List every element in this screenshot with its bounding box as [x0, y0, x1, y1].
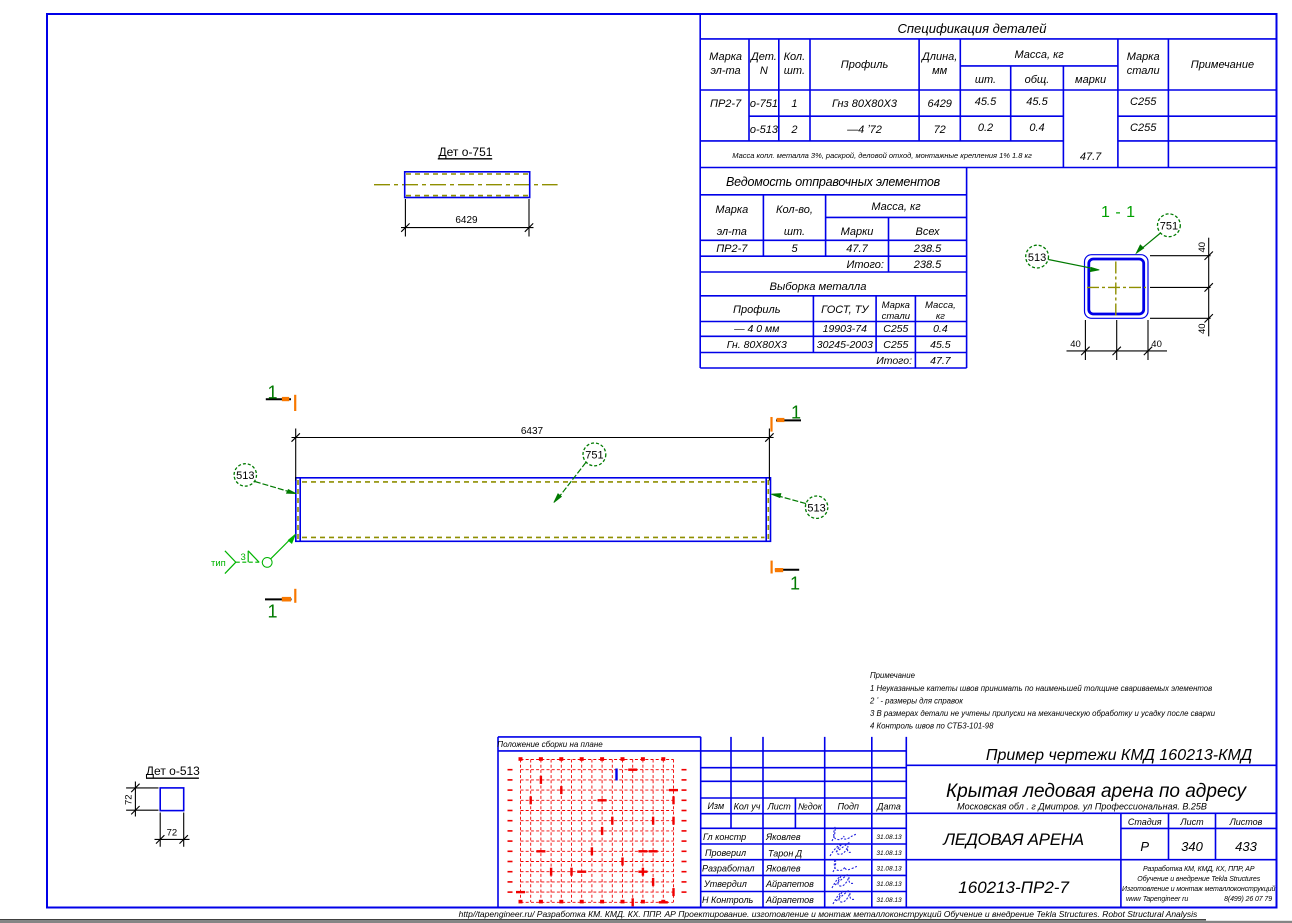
svg-text:Гн. 80Х80Х3: Гн. 80Х80Х3: [727, 339, 787, 351]
svg-text:1 Неуказанные катеты швов при: 1 Неуказанные катеты швов принимать по н…: [870, 684, 1212, 693]
svg-text:72: 72: [124, 794, 135, 805]
svg-text:513: 513: [1028, 252, 1046, 264]
svg-text:ГОСТ, ТУ: ГОСТ, ТУ: [821, 304, 869, 316]
svg-text:Разработал: Разработал: [702, 864, 754, 874]
svg-text:Крытая ледовая арена по адресу: Крытая ледовая арена по адресу: [946, 781, 1248, 802]
centerline of tube o-751: [374, 184, 558, 186]
svg-text:5: 5: [791, 243, 798, 255]
svg-text:Марка: Марка: [715, 204, 748, 216]
svg-text:751: 751: [585, 450, 603, 462]
revision table lines: [701, 737, 907, 908]
svg-text:6437: 6437: [521, 426, 544, 437]
svg-text:Дет о-513: Дет о-513: [146, 764, 200, 778]
svg-text:47.7: 47.7: [1080, 151, 1102, 163]
svg-text:Кол.: Кол.: [784, 51, 806, 63]
svg-text:Примечание: Примечание: [870, 671, 916, 680]
weld leader arrowhead: [288, 534, 295, 543]
section 1-1 tube wall: [1089, 259, 1144, 314]
svg-text:1: 1: [268, 602, 278, 622]
svg-text:31.08.13: 31.08.13: [876, 850, 902, 857]
section 1-1 tube outer contour: [1085, 255, 1149, 319]
dimension 6429: [401, 199, 534, 237]
svg-text:40: 40: [1151, 339, 1162, 350]
svg-text:45.5: 45.5: [975, 96, 997, 108]
svg-text:Масса, кг: Масса, кг: [871, 201, 921, 213]
svg-text:кг: кг: [936, 311, 945, 322]
svg-text:—4 ʼ72: —4 ʼ72: [846, 124, 882, 136]
svg-text:2 ʼ - размеры для справок: 2 ʼ - размеры для справок: [869, 697, 963, 706]
detail title "Дет о-513": [146, 764, 200, 778]
svg-text:Масса,: Масса,: [925, 300, 956, 311]
svg-text:31.08.13: 31.08.13: [876, 866, 902, 873]
svg-text:стали: стали: [882, 311, 911, 322]
svg-text:Итого:: Итого:: [876, 355, 912, 367]
svg-text:Обучение и внедрение Tekla St: Обучение и внедрение Tekla Structures: [1137, 875, 1260, 883]
main assembly beam ПР2-7 outline: [296, 478, 771, 542]
spec table text: [898, 21, 1047, 36]
svg-text:С255: С255: [883, 323, 908, 335]
svg-text:Профиль: Профиль: [733, 304, 781, 316]
svg-text:1: 1: [791, 98, 797, 110]
svg-text:Изготовление и монтаж металлок: Изготовление и монтаж металлоконструкций: [1122, 885, 1276, 893]
svg-text:http//tapengineer.ru/ Разрабо: http//tapengineer.ru/ Разработка КМ. КМД…: [459, 909, 1198, 919]
svg-text:Кол-во,: Кол-во,: [776, 204, 813, 216]
weld symbol тип: [225, 538, 292, 574]
signatures blue scribbles: [830, 827, 858, 904]
svg-text:Лист: Лист: [767, 802, 792, 812]
beam hidden lines: [298, 480, 768, 540]
svg-text:эл-та: эл-та: [717, 226, 747, 238]
svg-text:Кол уч: Кол уч: [734, 802, 761, 812]
section mark 1 top-right: [772, 403, 802, 432]
svg-text:Спецификация деталей: Спецификация деталей: [898, 21, 1047, 36]
svg-text:40: 40: [1197, 242, 1208, 253]
svg-text:Стадия: Стадия: [1128, 817, 1162, 827]
section bottom dimensions 40 40: [1067, 320, 1168, 360]
svg-text:Длина,: Длина,: [920, 51, 957, 63]
section callout circle 751: [1136, 214, 1180, 253]
svg-text:Гнз 80Х80Х3: Гнз 80Х80Х3: [832, 98, 898, 110]
end plate lines (513): [300, 478, 766, 542]
svg-text:Дата: Дата: [876, 802, 901, 812]
svg-text:Яковлев: Яковлев: [765, 864, 801, 874]
svg-text:Айрапетов: Айрапетов: [765, 895, 814, 905]
svg-text:www Tapengineer ru: www Tapengineer ru: [1126, 896, 1188, 903]
svg-text:С255: С255: [1130, 122, 1157, 134]
svg-text:Марка: Марка: [1127, 51, 1160, 63]
dimension 72 vertical: [126, 782, 158, 817]
svg-text:Ведомость отправочных элементо: Ведомость отправочных элементов: [726, 175, 941, 189]
svg-text:Примечание: Примечание: [1191, 59, 1254, 71]
svg-text:Тарон Д: Тарон Д: [768, 849, 803, 859]
svg-text:47.7: 47.7: [930, 355, 952, 367]
svg-text:Проверил: Проверил: [705, 848, 746, 858]
svg-text:о-513: о-513: [750, 124, 779, 136]
svg-text:72: 72: [167, 828, 178, 839]
svg-text:Пример чертежи КМД 160213-КМД: Пример чертежи КМД 160213-КМД: [986, 747, 1252, 764]
svg-text:Листов: Листов: [1229, 817, 1263, 827]
section callout circle 513: [1026, 245, 1100, 271]
svg-text:С255: С255: [883, 339, 908, 351]
svg-text:Марка: Марка: [709, 51, 742, 63]
svg-text:Положение сборки на плане: Положение сборки на плане: [497, 740, 603, 749]
section centerlines: [1087, 262, 1146, 317]
svg-text:30245-2003: 30245-2003: [817, 339, 873, 351]
svg-text:N: N: [760, 65, 768, 77]
svg-text:о-751: о-751: [750, 98, 778, 110]
svg-text:Марки: Марки: [841, 226, 874, 238]
svg-text:0.2: 0.2: [978, 122, 993, 134]
svg-text:Итого:: Итого:: [846, 259, 884, 271]
svg-text:С255: С255: [1130, 96, 1157, 108]
revision table text: [702, 801, 901, 905]
metal takeoff text: [770, 281, 867, 293]
title block lines: [906, 765, 1276, 907]
svg-text:Масса копл. металла 3%, раскро: Масса копл. металла 3%, раскрой, деловой…: [732, 151, 1032, 160]
svg-text:Изм: Изм: [707, 801, 724, 811]
section right dimensions 40 40: [1150, 238, 1213, 337]
section mark 1 bottom-right: [772, 561, 800, 594]
svg-text:ПР2-7: ПР2-7: [716, 243, 748, 255]
svg-text:45.5: 45.5: [1026, 96, 1048, 108]
svg-text:45.5: 45.5: [930, 339, 951, 351]
svg-text:2: 2: [790, 124, 797, 136]
svg-text:мм: мм: [932, 65, 948, 77]
svg-text:0.4: 0.4: [933, 323, 948, 335]
svg-text:513: 513: [236, 470, 254, 482]
svg-text:Р: Р: [1140, 839, 1149, 854]
svg-text:31.08.13: 31.08.13: [876, 834, 902, 841]
svg-text:стали: стали: [1127, 65, 1160, 77]
svg-text:0.4: 0.4: [1029, 122, 1044, 134]
svg-text:31.08.13: 31.08.13: [876, 897, 902, 904]
svg-text:3: 3: [241, 552, 246, 563]
svg-text:751: 751: [1160, 221, 1178, 233]
svg-text:Утвердил: Утвердил: [703, 879, 747, 889]
svg-text:Подп: Подп: [837, 802, 859, 812]
svg-text:Марка: Марка: [882, 300, 910, 311]
svg-text:340: 340: [1181, 839, 1203, 854]
svg-text:Выборка металла: Выборка металла: [770, 281, 867, 293]
tube o-751 outline: [405, 172, 530, 198]
assembly position box "Положение сборки на плане": [498, 737, 701, 908]
dimension 72 horizontal: [155, 813, 190, 847]
svg-text:тип: тип: [211, 558, 226, 569]
svg-text:72: 72: [934, 124, 946, 136]
footer underline: [0, 919, 1206, 921]
svg-text:эл-та: эл-та: [710, 65, 740, 77]
svg-text:19903-74: 19903-74: [823, 323, 868, 335]
svg-text:238.5: 238.5: [913, 259, 942, 271]
svg-text:шт.: шт.: [784, 226, 805, 238]
svg-text:Айрапетов: Айрапетов: [765, 879, 814, 889]
specification table "Спецификация деталей": [700, 14, 1276, 168]
callout circle 513 left: [234, 464, 296, 494]
metal takeoff table "Выборка металла": [700, 272, 966, 368]
svg-text:Московская обл . г Дмитров. у: Московская обл . г Дмитров. ул Профессио…: [957, 802, 1207, 812]
svg-text:Гл констр: Гл констр: [703, 832, 746, 842]
svg-text:шт.: шт.: [784, 65, 805, 77]
svg-text:№док: №док: [798, 802, 823, 812]
svg-text:513: 513: [807, 503, 825, 515]
svg-text:Яковлев: Яковлев: [765, 832, 801, 842]
svg-text:31.08.13: 31.08.13: [876, 881, 902, 888]
svg-text:Масса, кг: Масса, кг: [1014, 49, 1064, 61]
svg-text:Н Контроль: Н Контроль: [702, 895, 754, 905]
svg-text:1 - 1: 1 - 1: [1101, 204, 1136, 221]
svg-text:47.7: 47.7: [846, 243, 868, 255]
svg-text:433: 433: [1235, 839, 1257, 854]
detail title "Дет о-751": [439, 145, 493, 159]
svg-text:Всех: Всех: [916, 226, 940, 238]
svg-text:ЛЕДОВАЯ АРЕНА: ЛЕДОВАЯ АРЕНА: [942, 830, 1083, 849]
svg-text:марки: марки: [1075, 74, 1106, 86]
footer advert line: [459, 909, 1198, 919]
plate o-513: [160, 788, 184, 811]
svg-text:1: 1: [268, 383, 278, 403]
tube o-751 hidden lines: [406, 174, 529, 196]
section mark 1 bottom-left: [265, 589, 295, 622]
plan grid red: [521, 760, 674, 903]
svg-text:8(499) 26 07 79: 8(499) 26 07 79: [1224, 896, 1272, 903]
svg-text:Лист: Лист: [1179, 817, 1204, 827]
svg-text:160213-ПР2-7: 160213-ПР2-7: [958, 878, 1069, 897]
svg-text:шт.: шт.: [975, 74, 996, 86]
svg-text:— 4 0 мм: — 4 0 мм: [733, 323, 779, 335]
shipping elements table "Ведомость отправочных элементов": [700, 168, 966, 273]
svg-text:Дет.: Дет.: [749, 51, 777, 63]
title: drawing name: [942, 747, 1262, 897]
svg-text:1: 1: [791, 403, 801, 423]
shipping table text: [726, 175, 941, 189]
svg-text:4 Контроль швов по СТБ3-101-9: 4 Контроль швов по СТБ3-101-98: [870, 722, 994, 731]
svg-text:40: 40: [1197, 323, 1208, 334]
notes Примечание: [869, 671, 1216, 731]
svg-text:1: 1: [790, 574, 800, 594]
svg-text:40: 40: [1070, 339, 1081, 350]
dimension 6437: [292, 429, 774, 481]
svg-text:238.5: 238.5: [913, 243, 942, 255]
svg-text:ПР2-7: ПР2-7: [710, 98, 742, 110]
svg-text:Дет о-751: Дет о-751: [439, 145, 493, 159]
svg-text:6429: 6429: [927, 98, 951, 110]
svg-text:6429: 6429: [455, 215, 478, 226]
svg-text:Разработка КМ, КМД, КХ, ППР, А: Разработка КМ, КМД, КХ, ППР, АР: [1143, 865, 1255, 873]
plan position mark blue: [615, 769, 617, 781]
bottom grey bar: [0, 921, 1292, 923]
callout circle 751 middle: [554, 443, 606, 503]
callout circle 513 right: [771, 494, 828, 519]
svg-text:Профиль: Профиль: [841, 59, 889, 71]
section mark 1 top-left: [266, 383, 295, 412]
svg-text:общ.: общ.: [1025, 74, 1050, 86]
svg-text:3 В размерах детали не учтены: 3 В размерах детали не учтены припуски н…: [870, 709, 1216, 718]
